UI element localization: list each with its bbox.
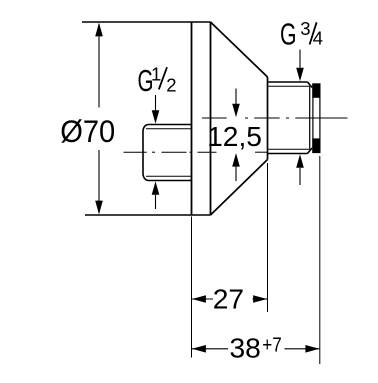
svg-text:38: 38 (230, 332, 261, 364)
label G1/2 (138, 63, 177, 98)
leader G1/2 top (155, 95, 157, 112)
leader G3/4 top (299, 50, 301, 69)
svg-text:2: 2 (166, 75, 176, 96)
svg-text:+7: +7 (262, 334, 282, 357)
leader G3/4 bottom (296, 154, 304, 168)
svg-text:G: G (280, 17, 297, 52)
arrow Ø70 top (95, 23, 103, 37)
svg-text:12,5: 12,5 (207, 120, 262, 152)
extension line left (27 / 38) (191, 217, 193, 358)
flange (Ø70 disc, side view) (192, 22, 211, 215)
G3/4 threaded stub (268, 82, 313, 154)
dimension 27 (192, 298, 267, 300)
extension line right 38 (319, 156, 321, 364)
dimension 38+7 (192, 348, 319, 350)
washer / seal at G3/4 end (312, 83, 320, 152)
label G3/4 (280, 17, 323, 52)
extension line right 27 (267, 163, 269, 312)
cone body (211, 22, 268, 215)
dimension Ø70 line (98, 24, 100, 213)
G3/4 thread root lines (268, 86, 311, 149)
extension line bottom (Ø70) (85, 214, 211, 216)
leader G1/2 bottom (152, 181, 160, 195)
svg-text:1: 1 (151, 64, 161, 85)
G1/2 threaded stub (143, 125, 192, 181)
svg-text:Ø70: Ø70 (60, 113, 115, 149)
svg-text:27: 27 (213, 283, 244, 315)
G3/4 thread end face (309, 87, 311, 149)
centerline G1/2 axis (124, 151, 268, 153)
G1/2 thread root lines (146, 129, 192, 176)
arrow Ø70 bottom (95, 201, 103, 215)
centerline main axis (202, 117, 347, 119)
dimension 12,5 arrows (235, 89, 237, 106)
svg-text:3: 3 (300, 18, 310, 39)
extension line top (Ø70) (82, 21, 211, 23)
